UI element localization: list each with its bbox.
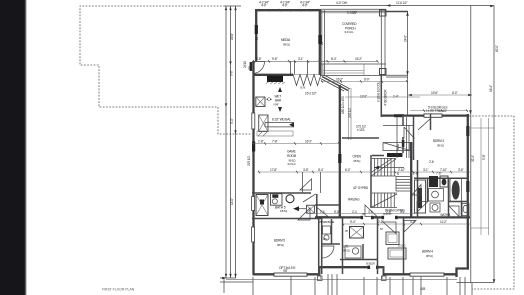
window bottom bdrm5 — [274, 273, 307, 276]
svg-text:3'-6": 3'-6" — [458, 168, 463, 172]
svg-text:OO-6: OO-6 — [300, 87, 306, 90]
svg-text:6'-0": 6'-0" — [345, 168, 350, 172]
bath5 vanity — [271, 194, 283, 206]
door swings bath — [417, 202, 428, 213]
dashed property line right — [469, 116, 514, 289]
svg-text:7'-8": 7'-8" — [272, 140, 277, 144]
svg-text:4'-0": 4'-0" — [302, 3, 307, 7]
svg-text:8 1/2" WD BAL: 8 1/2" WD BAL — [272, 118, 291, 122]
svg-text:BATH 4: BATH 4 — [441, 213, 451, 217]
porch left columns — [322, 10, 325, 75]
svg-text:4'-0" O/H: 4'-0" O/H — [336, 1, 348, 5]
dimension line under media — [252, 60, 378, 62]
svg-text:8'-4": 8'-4" — [318, 168, 323, 172]
svg-text:2'-8: 2'-8 — [429, 160, 434, 164]
svg-text:1'-6: 1'-6 — [320, 210, 325, 214]
fireplace corner diagonal — [322, 77, 348, 91]
svg-text:FIRST FLOOR PLAN: FIRST FLOOR PLAN — [102, 288, 135, 292]
long dimension verticals left of house — [225, 6, 227, 278]
porch floor line and steps — [320, 63, 386, 65]
svg-text:14'-0": 14'-0" — [230, 198, 234, 205]
bath5 sink circle — [286, 195, 294, 203]
svg-text:48": 48" — [345, 230, 348, 233]
svg-text:16'-4": 16'-4" — [489, 85, 493, 92]
dimension line x470 — [470, 6, 472, 284]
vanity with sink — [429, 189, 444, 202]
toilet right — [462, 204, 469, 216]
jamb verticals above bath5 — [303, 172, 321, 193]
svg-text:24'-0": 24'-0" — [404, 35, 408, 42]
svg-text:BAR: BAR — [275, 99, 282, 103]
hall walls near stairs — [342, 137, 379, 139]
door blob game right wall — [338, 154, 341, 163]
svg-text:9'8": 9'8" — [283, 269, 288, 273]
wall right of bath5 — [316, 194, 318, 219]
toilet mid — [430, 203, 440, 212]
svg-text:BATH 5: BATH 5 — [275, 206, 286, 210]
closet boxes — [386, 232, 399, 245]
svg-text:9'-6": 9'-6" — [230, 71, 234, 76]
svg-text:4" BO BRDR: 4" BO BRDR — [384, 89, 388, 106]
rotated dimension texts — [230, 33, 500, 205]
wall: top wall media+porch — [255, 9, 321, 11]
svg-text:5'-4": 5'-4" — [230, 119, 234, 124]
svg-text:5'2 CLO: 5'2 CLO — [398, 245, 406, 248]
closet tall — [415, 180, 426, 213]
pocket door box — [307, 205, 315, 213]
svg-text:3'-0: 3'-0 — [368, 210, 373, 214]
svg-text:16'8: 16'8 — [420, 287, 426, 291]
svg-text:x 13'3: x 13'3 — [357, 128, 365, 132]
svg-text:UTL: UTL — [343, 245, 349, 249]
hall walls — [315, 204, 341, 206]
wall: media right / porch left — [319, 9, 321, 75]
window in bdrm5 left wall — [252, 227, 255, 242]
svg-text:5'2": 5'2" — [380, 228, 384, 231]
svg-text:15'-2 1/2": 15'-2 1/2" — [305, 92, 317, 96]
shower head blob — [260, 200, 264, 205]
roof overhang line top — [320, 5, 494, 7]
svg-text:18'0 1/2 x 19'0: 18'0 1/2 x 19'0 — [341, 96, 345, 114]
svg-text:4'-0": 4'-0" — [282, 3, 287, 7]
svg-text:8'-0": 8'-0" — [364, 78, 369, 82]
svg-text:BDRM 4: BDRM 4 — [422, 250, 433, 254]
svg-text:2'-10": 2'-10" — [398, 168, 405, 172]
svg-text:BDRM 3: BDRM 3 — [433, 139, 444, 143]
wall segment right of porch top — [386, 11, 408, 13]
window blob media left wall — [255, 25, 258, 34]
svg-text:11'-6 1/2": 11'-6 1/2" — [396, 1, 407, 5]
wall: house right — [467, 114, 469, 269]
svg-text:42" GYPBD: 42" GYPBD — [353, 186, 369, 190]
dim line bottom right — [457, 282, 495, 284]
svg-text:9'8 SQ: 9'8 SQ — [277, 243, 284, 247]
svg-text:4'-4": 4'-4" — [410, 220, 415, 224]
svg-text:OPT 5x1.5 R: OPT 5x1.5 R — [279, 266, 296, 270]
svg-text:5'-4": 5'-4" — [350, 220, 355, 224]
door swing media — [253, 62, 265, 74]
bdrm5 hall walls — [318, 218, 320, 274]
svg-text:LTS: LTS — [323, 238, 327, 241]
svg-text:32'-4": 32'-4" — [471, 155, 475, 162]
svg-text:24'10: 24'10 — [243, 61, 247, 68]
wet bar sink box — [256, 97, 265, 107]
svg-text:9'8 SQ: 9'8 SQ — [283, 43, 290, 47]
svg-text:1'-8": 1'-8" — [258, 140, 263, 144]
closet door arc — [322, 246, 334, 258]
svg-text:W: W — [320, 42, 324, 45]
window blob media right wall — [318, 35, 321, 44]
svg-text:9'8 SQ: 9'8 SQ — [289, 159, 296, 163]
svg-text:9'8 SQ: 9'8 SQ — [426, 254, 433, 258]
svg-text:11'-2": 11'-2" — [440, 220, 447, 224]
svg-text:V 9'8": V 9'8" — [273, 103, 279, 107]
svg-text:8'0 BM GYPBD: 8'0 BM GYPBD — [385, 209, 405, 213]
dashed patio outline left — [80, 6, 252, 134]
svg-text:1 LITE TRIM 1/2: 1 LITE TRIM 1/2 — [426, 109, 447, 113]
wall: bottom — [253, 273, 321, 275]
bath5 shower — [256, 195, 268, 216]
window right wall — [466, 181, 469, 192]
svg-text:1'-4": 1'-4" — [393, 95, 398, 99]
dimension rows — [252, 82, 472, 225]
bath5 bottom wall — [252, 218, 321, 220]
svg-text:4'-0": 4'-0" — [261, 3, 266, 7]
svg-text:8'-4": 8'-4" — [331, 57, 336, 61]
door swings bdrm4/utl — [383, 222, 396, 234]
small bath fixtures — [323, 226, 331, 234]
svg-text:9'8 SQ: 9'8 SQ — [354, 159, 361, 163]
svg-text:29'3 1/2: 29'3 1/2 — [348, 108, 352, 118]
svg-text:4'-6": 4'-6" — [256, 57, 261, 61]
svg-text:2'-8": 2'-8" — [378, 220, 383, 224]
svg-text:1'-0 5/8": 1'-0 5/8" — [347, 11, 357, 15]
window in left wall bath5 — [252, 197, 255, 211]
bath5 top wall — [252, 192, 311, 194]
WH pocket box — [350, 227, 364, 239]
svg-text:12'-0": 12'-0" — [360, 95, 367, 99]
bath right wing: top wall — [414, 177, 468, 179]
wall: house left — [252, 61, 254, 274]
svg-text:16'-2": 16'-2" — [336, 78, 343, 82]
stairs block — [370, 155, 372, 208]
tiny dimension texts — [256, 1, 463, 291]
wet bar counter black — [267, 76, 283, 83]
svg-text:2'-6": 2'-6" — [413, 172, 418, 176]
svg-text:GAME: GAME — [287, 150, 296, 154]
svg-text:3'-1": 3'-1" — [298, 57, 303, 61]
svg-text:PORCH: PORCH — [345, 27, 356, 31]
wall: media left — [255, 9, 257, 61]
window bottom bdrm4 — [410, 273, 444, 276]
svg-text:ROOM: ROOM — [287, 154, 297, 158]
door swings hall center — [298, 208, 310, 220]
svg-text:2'-4: 2'-4 — [352, 210, 357, 214]
brick face line below bottom wall — [226, 278, 457, 280]
opening jambs under media — [291, 62, 308, 75]
svg-text:COVERED: COVERED — [342, 22, 357, 26]
bdrm4 left wall — [403, 218, 405, 274]
bottom right corner step — [457, 269, 470, 278]
svg-text:17'-8": 17'-8" — [270, 168, 277, 172]
svg-text:6'0 SLDR: 6'0 SLDR — [366, 262, 375, 265]
svg-text:3'0 PCKT: 3'0 PCKT — [383, 213, 392, 216]
bdrm3 closet wall — [430, 114, 432, 130]
svg-text:5'-0: 5'-0 — [334, 210, 339, 214]
door arrow — [293, 206, 299, 211]
washer — [345, 246, 361, 258]
door swing right of stairs — [412, 185, 421, 196]
svg-text:MEDIA: MEDIA — [281, 38, 291, 42]
toilet blobs top — [429, 176, 438, 187]
svg-text:9 1/2x9 1/2 COL: 9 1/2x9 1/2 COL — [377, 81, 381, 102]
svg-text:16'-6": 16'-6" — [230, 33, 234, 40]
svg-text:62'-0": 62'-0" — [495, 45, 499, 52]
svg-text:9'8 SQ: 9'8 SQ — [437, 144, 444, 148]
svg-text:OPEN: OPEN — [353, 155, 362, 159]
svg-text:6'-0": 6'-0" — [452, 91, 457, 95]
svg-text:9'-0 CLG: 9'-0 CLG — [288, 163, 296, 166]
svg-text:7'-6": 7'-6" — [436, 172, 441, 176]
svg-text:5'-8": 5'-8" — [482, 155, 486, 160]
porch right columns — [381, 10, 385, 117]
svg-text:16'-2": 16'-2" — [305, 140, 312, 144]
stair head diagonal — [383, 143, 410, 151]
window blob bdrm3 right wall — [466, 126, 469, 136]
svg-text:16'-2": 16'-2" — [355, 57, 362, 61]
wall: right wing top — [382, 114, 469, 116]
dimension line far right — [493, 6, 495, 284]
bath interior walls — [427, 179, 429, 202]
beam bar — [387, 153, 403, 157]
svg-text:2'8: 2'8 — [248, 66, 252, 70]
window blob left wall — [252, 142, 255, 152]
svg-text:29'3 1/2: 29'3 1/2 — [247, 156, 251, 166]
left black sidebar — [0, 0, 26, 295]
svg-text:9'-0 CLG: 9'-0 CLG — [345, 30, 354, 34]
counter lines — [265, 123, 294, 127]
svg-text:W: W — [255, 37, 259, 40]
svg-text:19'-6": 19'-6" — [431, 91, 438, 95]
svg-text:9-8 SQ: 9-8 SQ — [280, 209, 287, 213]
porch bottom edge — [320, 75, 386, 77]
arrows — [222, 4, 495, 283]
tick slashes — [252, 80, 469, 225]
svg-text:6'8 DR: 6'8 DR — [397, 143, 400, 150]
svg-text:9'8 SQ: 9'8 SQ — [343, 249, 350, 253]
svg-text:3'-1": 3'-1" — [423, 168, 428, 172]
extension lines below house — [224, 274, 472, 295]
svg-text:RAILING: RAILING — [348, 198, 360, 202]
svg-text:BDRM 5: BDRM 5 — [274, 239, 285, 243]
wall: game right — [339, 85, 341, 218]
tub vertical — [450, 179, 462, 202]
utl area walls — [342, 218, 344, 274]
svg-text:3'-8": 3'-8" — [303, 168, 308, 172]
window in bdrm3 top wall — [424, 114, 442, 117]
bdrm3 entry door — [404, 127, 415, 139]
zigzag window game top — [293, 75, 321, 86]
cabinet with X — [259, 115, 268, 132]
wall: game top — [254, 74, 293, 76]
wet bar dim arrows — [278, 87, 282, 112]
svg-text:9'-8": 9'-8" — [272, 57, 277, 61]
